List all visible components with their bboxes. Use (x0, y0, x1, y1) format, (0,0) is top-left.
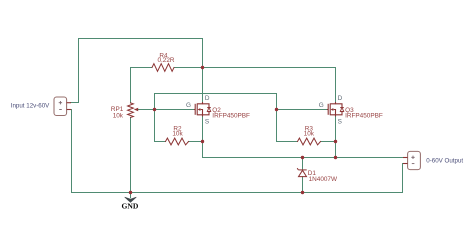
svg-text:GND: GND (121, 201, 138, 210)
svg-text:IRFP450PBF: IRFP450PBF (212, 112, 250, 119)
svg-text:D: D (338, 95, 343, 102)
svg-text:IRFP450PBF: IRFP450PBF (345, 112, 383, 119)
svg-text:10k: 10k (172, 131, 183, 138)
svg-text:1N4007W: 1N4007W (309, 176, 338, 183)
svg-text:0.22R: 0.22R (157, 57, 174, 64)
svg-text:S: S (205, 119, 209, 126)
svg-text:D: D (205, 95, 210, 102)
svg-text:G: G (186, 102, 191, 109)
svg-text:10k: 10k (304, 131, 315, 138)
svg-text:10k: 10k (113, 112, 124, 119)
svg-text:S: S (338, 119, 342, 126)
svg-text:G: G (319, 102, 324, 109)
svg-text:Input 12v-60V: Input 12v-60V (11, 103, 50, 110)
svg-text:0-60V Output: 0-60V Output (426, 158, 463, 165)
